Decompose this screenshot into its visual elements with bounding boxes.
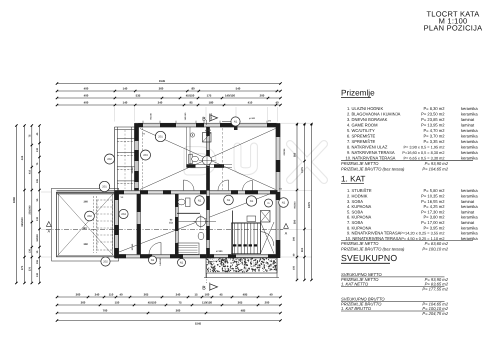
svg-text:P= 3,70 m2: P= 3,70 m2 xyxy=(423,133,445,138)
circle N1 b xyxy=(224,195,234,205)
bottom dimension line 4 (1545) xyxy=(57,320,281,322)
terrace strip dashed centerline xyxy=(124,130,126,189)
svg-text:P=14,20 x 0,25 = 3,55 m2: P=14,20 x 0,25 = 3,55 m2 xyxy=(400,232,444,236)
circle N1 a xyxy=(195,196,205,206)
svg-text:P= 3,95 m2: P= 3,95 m2 xyxy=(423,225,445,230)
door arc 3 (up, hinge right at 252) xyxy=(243,181,253,191)
svg-text:PRIZEMLJE BRUTTO (bez terasa): PRIZEMLJE BRUTTO (bez terasa) xyxy=(341,166,405,171)
svg-text:P= 17,00 m2: P= 17,00 m2 xyxy=(421,220,445,225)
svg-text:laminat: laminat xyxy=(461,209,475,214)
svg-text:P= 17,30 m2: P= 17,30 m2 xyxy=(421,209,445,214)
svg-text:200: 200 xyxy=(265,300,270,304)
svg-text:40: 40 xyxy=(275,100,279,104)
svg-text:204: 204 xyxy=(121,213,126,216)
terrace room diagonals xyxy=(57,192,115,256)
partition stair left xyxy=(232,211,234,255)
room circle 201 xyxy=(155,131,165,141)
svg-text:5. WC/UTILITY: 5. WC/UTILITY xyxy=(347,128,375,133)
svg-text:N1: N1 xyxy=(180,261,184,264)
svg-text:201: 201 xyxy=(102,185,107,188)
svg-text:10. NATKRIVENA TERASA: 10. NATKRIVENA TERASA xyxy=(346,155,396,160)
svg-text:80: 80 xyxy=(191,86,195,90)
terrace strip rungs xyxy=(115,129,135,131)
svg-text:110: 110 xyxy=(109,292,114,296)
svg-text:keramika: keramika xyxy=(461,111,478,116)
bottom exterior wall xyxy=(115,255,278,259)
svg-text:8. NATKRIVENI ULAZ: 8. NATKRIVENI ULAZ xyxy=(347,144,388,149)
svg-text:45: 45 xyxy=(219,292,223,296)
svg-text:9. NENATKRIVENA TERASA: 9. NENATKRIVENA TERASA xyxy=(347,231,401,236)
svg-text:203: 203 xyxy=(143,154,148,157)
left extension lines xyxy=(41,191,51,193)
circle N1 right xyxy=(279,198,289,208)
left wall of main block xyxy=(135,123,139,194)
staircase break dashes xyxy=(233,244,236,246)
top dimension line 1 (1545) xyxy=(57,83,281,85)
partition x=176.5 lower band xyxy=(175,194,178,255)
svg-text:400: 400 xyxy=(84,86,89,90)
svg-text:340: 340 xyxy=(176,292,181,296)
svg-text:laminat: laminat xyxy=(461,220,475,225)
right exterior wall xyxy=(276,123,280,258)
svg-text:P= 4,70 m2: P= 4,70 m2 xyxy=(423,128,445,133)
shower grate bottom bathroom xyxy=(177,243,199,254)
basin circle bottom xyxy=(196,217,206,227)
svg-text:N1: N1 xyxy=(234,120,238,123)
svg-text:40: 40 xyxy=(269,292,273,296)
svg-text:laminat: laminat xyxy=(461,117,475,122)
lower-left exterior wall xyxy=(115,191,119,259)
svg-text:110/150: 110/150 xyxy=(202,300,212,304)
small fixture circle top bathroom xyxy=(190,133,194,137)
svg-text:365: 365 xyxy=(238,300,243,304)
svg-text:90/240: 90/240 xyxy=(131,166,134,173)
svg-text:140/240: 140/240 xyxy=(244,257,247,265)
room circle 202b xyxy=(85,211,95,221)
svg-text:360: 360 xyxy=(159,86,164,90)
middle interior wall xyxy=(57,191,278,195)
dashed line main room xyxy=(142,128,144,190)
svg-text:p=180: p=180 xyxy=(205,129,212,132)
top dimension line 3 xyxy=(57,97,281,99)
svg-text:keramika: keramika xyxy=(461,106,478,111)
svg-text:360/240: 360/240 xyxy=(21,217,24,227)
svg-text:140/240: 140/240 xyxy=(159,257,162,265)
svg-text:3. DNEVNI BORAVAK: 3. DNEVNI BORAVAK xyxy=(347,117,388,122)
svg-text:360: 360 xyxy=(81,300,86,304)
toilet top bathroom xyxy=(189,155,193,164)
svg-text:140/150: 140/150 xyxy=(225,93,236,97)
svg-text:230/240: 230/240 xyxy=(28,205,31,215)
svg-text:P= 3,90 x 0,5 = 1,95 m2: P= 3,90 x 0,5 = 1,95 m2 xyxy=(403,145,444,149)
svg-text:P= 4,25 m2: P= 4,25 m2 xyxy=(423,204,445,209)
room circle 202c xyxy=(101,257,110,266)
svg-text:365: 365 xyxy=(144,292,149,296)
room circle 203 xyxy=(141,150,151,160)
svg-text:B: B xyxy=(202,117,206,123)
svg-text:150: 150 xyxy=(115,300,120,304)
left dimension line 4 xyxy=(39,126,41,284)
svg-text:45/150: 45/150 xyxy=(186,93,195,97)
bottom dimension line 1 xyxy=(57,296,281,298)
svg-text:P= 3,80 m2: P= 3,80 m2 xyxy=(423,215,445,220)
svg-text:160/90: 160/90 xyxy=(36,234,39,242)
svg-text:400: 400 xyxy=(84,100,89,104)
left dimension line 1 xyxy=(15,126,17,284)
svg-text:P= 23,50 m2: P= 23,50 m2 xyxy=(421,111,445,116)
svg-text:485: 485 xyxy=(241,308,246,312)
left dimension line 3 xyxy=(31,126,33,284)
room circle 204 xyxy=(119,209,128,218)
svg-text:700: 700 xyxy=(103,308,108,312)
svg-text:1. KAT: 1. KAT xyxy=(341,175,365,184)
svg-text:535: 535 xyxy=(136,93,141,97)
svg-text:N1: N1 xyxy=(151,259,155,262)
right dimension line 3 xyxy=(311,124,313,280)
svg-text:201: 201 xyxy=(158,135,163,138)
bottom dimension line 2 xyxy=(57,304,281,306)
svg-text:P=16,60 x 0,5 = 8,30 m2: P=16,60 x 0,5 = 8,30 m2 xyxy=(402,151,444,155)
svg-text:540: 540 xyxy=(236,86,241,90)
svg-text:P= 5,80 m2: P= 5,80 m2 xyxy=(423,188,445,193)
svg-text:1. STUBIŠTE: 1. STUBIŠTE xyxy=(347,188,372,193)
circle N1 bottom b xyxy=(178,259,186,267)
svg-text:140/150: 140/150 xyxy=(184,112,187,120)
svg-text:P= 100,10 m2: P= 100,10 m2 xyxy=(422,246,448,251)
svg-text:PRIZEMLJE NETTO: PRIZEMLJE NETTO xyxy=(341,241,379,246)
svg-text:160: 160 xyxy=(205,292,210,296)
top dimension line 2 xyxy=(57,90,281,92)
svg-text:keramika: keramika xyxy=(461,194,478,199)
gravel stipple xyxy=(250,257,253,260)
svg-text:laminat: laminat xyxy=(461,122,475,127)
svg-text:1860: 1860 xyxy=(12,196,16,203)
chimney block top xyxy=(234,126,238,131)
svg-text:150: 150 xyxy=(293,265,296,270)
svg-text:G: G xyxy=(267,202,269,205)
svg-text:keramika: keramika xyxy=(461,155,478,160)
main room diagonal 2 xyxy=(140,129,276,190)
svg-text:P= 8,30 m2: P= 8,30 m2 xyxy=(423,106,445,111)
svg-text:140: 140 xyxy=(123,86,128,90)
svg-text:90/240: 90/240 xyxy=(220,258,223,265)
door arc 5 (bottom wall) xyxy=(149,243,161,255)
svg-text:202: 202 xyxy=(103,260,108,263)
svg-text:200: 200 xyxy=(260,93,265,97)
svg-text:keramika: keramika xyxy=(461,225,478,230)
shaft xyxy=(261,211,271,223)
lower band long diagonal xyxy=(119,192,276,253)
svg-text:90/240: 90/240 xyxy=(150,112,153,119)
svg-text:8. KUPAONA: 8. KUPAONA xyxy=(347,225,372,230)
main left wall continuation (bottom band) xyxy=(137,194,141,255)
svg-text:B: B xyxy=(202,286,206,292)
svg-text:P= 204,75 m2: P= 204,75 m2 xyxy=(422,311,448,316)
svg-text:Prizemlje: Prizemlje xyxy=(341,88,375,97)
watermark letter X xyxy=(290,144,324,180)
svg-text:500: 500 xyxy=(301,247,304,252)
svg-text:130: 130 xyxy=(36,216,39,221)
svg-text:P= 6,65 x 0,5 = 3,30 m2: P= 6,65 x 0,5 = 3,30 m2 xyxy=(403,156,444,160)
svg-text:keramika: keramika xyxy=(461,215,478,220)
svg-text:340: 340 xyxy=(158,100,163,104)
svg-text:495: 495 xyxy=(243,292,248,296)
svg-text:PRIZEMLJE NETTO: PRIZEMLJE NETTO xyxy=(341,161,379,166)
staircase winder arc xyxy=(261,232,274,246)
watermark letter D xyxy=(188,150,213,172)
svg-text:1. KAT NETTO: 1. KAT NETTO xyxy=(341,281,369,286)
svg-text:590: 590 xyxy=(293,219,296,224)
partition bathroom top xyxy=(186,127,188,167)
svg-text:585: 585 xyxy=(293,152,296,157)
svg-text:410: 410 xyxy=(28,169,31,174)
column basin circle top xyxy=(202,156,211,165)
svg-text:400: 400 xyxy=(84,93,89,97)
svg-text:a=100: a=100 xyxy=(216,250,223,253)
svg-text:180: 180 xyxy=(209,100,214,104)
svg-text:1545: 1545 xyxy=(159,79,166,83)
svg-text:SVEUKUPNO: SVEUKUPNO xyxy=(341,253,397,263)
svg-text:130: 130 xyxy=(36,272,39,277)
svg-text:40: 40 xyxy=(119,292,123,296)
svg-text:130: 130 xyxy=(28,248,31,253)
left dimension line 2 xyxy=(24,126,26,284)
main room diagonal 1 xyxy=(140,129,276,190)
right dimension line 2 xyxy=(304,124,306,280)
svg-text:2. HODNIK: 2. HODNIK xyxy=(347,194,368,199)
small ellipse bottom bathroom xyxy=(198,232,204,240)
svg-text:7. SOBA: 7. SOBA xyxy=(347,220,363,225)
svg-text:15: 15 xyxy=(194,292,198,296)
svg-text:445: 445 xyxy=(21,155,24,160)
dashed line bathroom right xyxy=(222,128,224,190)
svg-text:P= 16,55 m2: P= 16,55 m2 xyxy=(421,199,445,204)
svg-text:1545: 1545 xyxy=(195,322,202,326)
svg-text:270: 270 xyxy=(28,266,31,271)
svg-text:N1: N1 xyxy=(198,199,202,202)
svg-text:3. SOBA: 3. SOBA xyxy=(347,199,363,204)
circle N1 c xyxy=(246,196,256,206)
section line A-A xyxy=(46,229,283,231)
svg-text:P= 93,90 m2: P= 93,90 m2 xyxy=(425,161,449,166)
svg-text:keramika: keramika xyxy=(461,144,478,149)
svg-text:P= 23,85 m2: P= 23,85 m2 xyxy=(421,117,445,122)
svg-text:90/240: 90/240 xyxy=(131,243,134,250)
svg-text:laminat: laminat xyxy=(461,199,475,204)
svg-text:195: 195 xyxy=(36,178,39,183)
bathroom bottom wall xyxy=(187,164,233,166)
svg-text:P= 13,95 m2: P= 13,95 m2 xyxy=(421,122,445,127)
svg-text:1875: 1875 xyxy=(308,202,311,208)
svg-text:PRIZEMLJE BRUTTO (bez terasa): PRIZEMLJE BRUTTO (bez terasa) xyxy=(341,246,405,251)
svg-text:90/240: 90/240 xyxy=(293,201,296,209)
svg-text:P= 104,65 m2: P= 104,65 m2 xyxy=(422,166,448,171)
svg-text:N1: N1 xyxy=(250,200,254,203)
svg-text:200: 200 xyxy=(293,236,296,241)
svg-text:270: 270 xyxy=(21,265,24,270)
svg-text:N1: N1 xyxy=(227,199,231,202)
partition x=207 xyxy=(207,127,210,255)
svg-text:2. BLAGOVAONA I KUHINJA: 2. BLAGOVAONA I KUHINJA xyxy=(347,111,401,116)
svg-text:keramika: keramika xyxy=(461,188,478,193)
section arrow A left xyxy=(46,222,51,227)
svg-text:keramika: keramika xyxy=(461,231,478,236)
door arc 2 (up, hinge right) xyxy=(218,180,229,191)
room circle 202 xyxy=(105,154,115,164)
bottom dimension line 3 xyxy=(57,312,281,314)
watermark letter U xyxy=(238,147,255,172)
terrace room dashed wardrobe xyxy=(93,196,95,253)
svg-text:360: 360 xyxy=(76,292,81,296)
svg-text:keramika: keramika xyxy=(461,150,478,155)
svg-text:130: 130 xyxy=(36,147,39,152)
staircase newel box xyxy=(247,216,256,222)
circle N1 bottom a xyxy=(149,256,157,264)
svg-text:4. GAME ROOM: 4. GAME ROOM xyxy=(347,122,378,127)
svg-text:95: 95 xyxy=(189,100,193,104)
svg-text:keramika: keramika xyxy=(461,133,478,138)
svg-text:keramika: keramika xyxy=(461,236,478,241)
svg-text:keramika: keramika xyxy=(461,139,478,144)
section arrow A right xyxy=(284,224,289,229)
toilet bottom bathroom (horizontal) xyxy=(186,198,191,207)
svg-text:410: 410 xyxy=(248,100,253,104)
svg-text:75: 75 xyxy=(178,300,182,304)
svg-text:9. NATKRIVENA TERASA: 9. NATKRIVENA TERASA xyxy=(347,150,395,155)
window circle N1 top xyxy=(231,117,240,126)
svg-text:202: 202 xyxy=(87,215,92,218)
svg-text:360: 360 xyxy=(84,201,89,204)
svg-text:7. SPREMIŠTE: 7. SPREMIŠTE xyxy=(347,139,375,144)
shower box with X (top bathroom) xyxy=(203,133,212,143)
extension lines top xyxy=(114,107,116,122)
svg-text:1. ULAZNI HODNIK: 1. ULAZNI HODNIK xyxy=(347,106,383,111)
svg-text:5. SOBA: 5. SOBA xyxy=(347,209,363,214)
svg-text:p=180: p=180 xyxy=(249,117,256,120)
svg-text:6. SPREMIŠTE: 6. SPREMIŠTE xyxy=(347,133,375,138)
svg-text:N1: N1 xyxy=(282,201,286,204)
circle G xyxy=(265,199,273,207)
svg-text:45/150: 45/150 xyxy=(148,300,157,304)
right extension lines xyxy=(281,122,312,124)
svg-text:PLAN POZICIJA: PLAN POZICIJA xyxy=(424,24,483,33)
staircase risers xyxy=(232,223,261,254)
svg-text:340: 340 xyxy=(95,292,100,296)
terrace room inner rect xyxy=(57,192,115,256)
svg-text:155: 155 xyxy=(36,259,39,264)
svg-text:P= 3,35 m2: P= 3,35 m2 xyxy=(423,139,445,144)
svg-text:1. KAT BRUTTO: 1. KAT BRUTTO xyxy=(341,306,372,311)
terrace room outer boundary xyxy=(52,188,119,261)
svg-text:P= 177,55 m2: P= 177,55 m2 xyxy=(422,286,448,291)
svg-text:P= 83,60 m2: P= 83,60 m2 xyxy=(425,241,449,246)
svg-text:6. KUPAONA: 6. KUPAONA xyxy=(347,215,372,220)
section line B-B vertical xyxy=(206,120,208,283)
svg-text:360: 360 xyxy=(176,308,181,312)
svg-text:1175: 1175 xyxy=(301,167,304,173)
window edge ticks top wall xyxy=(142,121,144,124)
door arc 1 (up, hinge left) xyxy=(184,180,195,191)
svg-text:45/150: 45/150 xyxy=(210,112,213,119)
svg-text:140: 140 xyxy=(123,100,128,104)
right dimension line 1 xyxy=(296,124,298,280)
top dimension line 4 xyxy=(57,104,281,106)
svg-text:202: 202 xyxy=(107,158,112,161)
svg-text:keramika: keramika xyxy=(461,128,478,133)
svg-text:360: 360 xyxy=(84,243,89,246)
svg-text:P= 10,35 m2: P= 10,35 m2 xyxy=(421,194,445,199)
svg-text:175: 175 xyxy=(207,93,212,97)
top exterior wall xyxy=(135,123,278,127)
svg-text:4. KUPAONA: 4. KUPAONA xyxy=(347,204,372,209)
counter line bottom bathroom xyxy=(177,212,200,214)
room circle 201b xyxy=(99,181,109,191)
staircase landing diagonals xyxy=(261,222,275,254)
gravel apron border xyxy=(206,258,277,274)
terrace strip walls xyxy=(114,127,116,191)
svg-text:keramika: keramika xyxy=(461,204,478,209)
svg-text:90/240: 90/240 xyxy=(283,149,286,156)
